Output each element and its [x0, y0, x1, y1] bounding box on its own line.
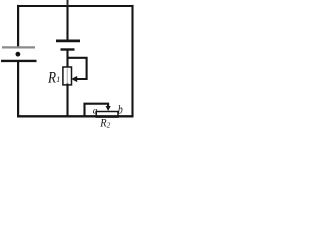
wire middle branch lower [66, 84, 68, 118]
wire right border [131, 5, 133, 117]
battery E short plate [61, 48, 75, 50]
svg-text:2: 2 [107, 122, 111, 130]
R1 slider wire and arrow [68, 58, 87, 82]
svg-text:b: b [118, 103, 123, 117]
battery B1 short thick plate [1, 60, 37, 62]
wire top border [17, 5, 134, 7]
resistor R1 body [63, 67, 72, 85]
svg-text:1: 1 [56, 75, 60, 84]
wire left border upper (down to battery B1) [17, 5, 19, 47]
wire stub above top border at battery branch [67, 0, 69, 6]
battery B1 terminal dot [16, 52, 21, 57]
wire bottom border [17, 115, 134, 117]
svg-text:R: R [47, 69, 56, 86]
R2 slider wire and arrow [85, 104, 111, 116]
wire middle branch between battery and R1 [66, 50, 68, 69]
battery B1 long thin plate (gray) [2, 46, 35, 48]
wire middle branch upper [66, 6, 68, 40]
svg-text:a: a [93, 107, 98, 117]
wire left border lower (battery B1 to bottom) [17, 62, 19, 118]
resistor R2 body [96, 112, 118, 118]
battery E long plate [56, 40, 80, 43]
